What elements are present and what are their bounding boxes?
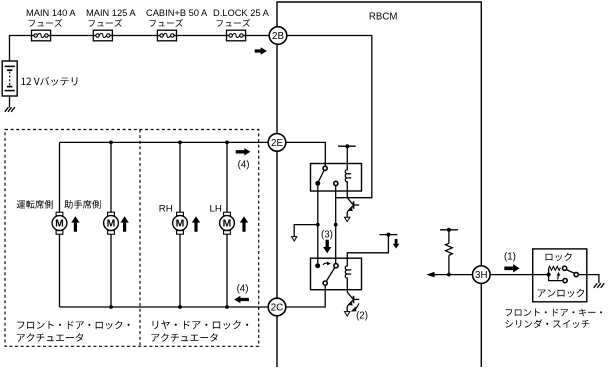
wire ground branch bbox=[294, 225, 318, 237]
motor M1 driver front bbox=[52, 212, 67, 234]
svg-text:RBCM: RBCM bbox=[369, 11, 398, 22]
relay K2 switch bbox=[315, 262, 338, 286]
svg-text:2E: 2E bbox=[271, 138, 283, 149]
flow arrow down at K2 coil feed bbox=[393, 239, 400, 249]
svg-text:M: M bbox=[176, 219, 185, 230]
actuator dashed enclosure bbox=[5, 130, 259, 347]
flow arrow (4) right bbox=[236, 148, 251, 155]
wire motor column x=180 bbox=[178, 141, 182, 309]
wire motor column x=111 bbox=[109, 141, 113, 309]
label (2) bbox=[356, 311, 368, 322]
label rear door lock actuator bbox=[152, 320, 249, 341]
flow arrow (2) at Q2 bbox=[351, 303, 359, 311]
relay K1 coil bbox=[345, 164, 351, 192]
junction node on 3H wire bbox=[447, 273, 451, 277]
lock direction arrow at M1 driver front bbox=[71, 216, 79, 232]
wire top bus (lock feed) bbox=[60, 141, 269, 143]
wire bottom bus (unlock feed) bbox=[60, 306, 269, 308]
label front door lock actuator bbox=[17, 321, 129, 342]
label passenger side bbox=[64, 200, 100, 209]
svg-text:M: M bbox=[107, 219, 116, 230]
wire 2E to relay K1 common bbox=[286, 142, 326, 166]
motor M3 rear RH bbox=[173, 212, 188, 234]
svg-text:M: M bbox=[223, 219, 232, 230]
svg-text:LH: LH bbox=[210, 203, 222, 214]
flow arrow (4) left bbox=[234, 296, 249, 303]
lock direction arrow at M2 passenger front bbox=[120, 216, 128, 232]
label 12 V battery bbox=[21, 77, 77, 86]
fuse F1 MAIN 140A bbox=[32, 30, 51, 41]
power stub to relay K1 coil bbox=[338, 144, 356, 163]
relay K1 switch bbox=[315, 166, 338, 186]
fuse F2 MAIN 125A bbox=[93, 30, 112, 41]
wire 3H to key cylinder switch bbox=[490, 274, 548, 276]
wire K1 NO to K2 common bbox=[334, 186, 338, 264]
label (4) bottom bbox=[237, 283, 249, 294]
svg-text:MAIN 140 A: MAIN 140 A bbox=[26, 8, 76, 18]
label RH bbox=[159, 203, 173, 214]
svg-text:(4): (4) bbox=[238, 160, 250, 171]
label driver side bbox=[17, 200, 53, 209]
key switch contacts bbox=[547, 266, 579, 283]
arrowhead left (to other circuit) bbox=[426, 272, 434, 278]
connector pin 2B bbox=[269, 27, 287, 45]
wire battery to ground bbox=[9, 96, 11, 108]
label front door key cylinder switch line2 bbox=[505, 319, 589, 328]
key cylinder switch box bbox=[533, 249, 587, 302]
svg-text:3H: 3H bbox=[475, 270, 488, 281]
label unlock bbox=[538, 289, 585, 298]
connector pin 3H bbox=[473, 266, 491, 284]
resistor R1 (pull-up) bbox=[446, 230, 453, 275]
ground key switch bbox=[594, 283, 605, 288]
label lock bbox=[546, 253, 572, 261]
label front door key cylinder switch line1 bbox=[506, 308, 602, 316]
label fuse F3 bbox=[146, 8, 208, 27]
svg-text:2B: 2B bbox=[272, 31, 284, 42]
svg-text:RH: RH bbox=[159, 203, 173, 214]
svg-text:M: M bbox=[55, 219, 64, 230]
label (3) bbox=[321, 230, 333, 241]
RBCM module box bbox=[277, 2, 481, 367]
ground battery bbox=[5, 107, 15, 112]
svg-text:(2): (2) bbox=[356, 311, 368, 322]
label (1) bbox=[504, 252, 516, 263]
connector pin 2E bbox=[268, 134, 286, 152]
flow arrow into 2B bbox=[255, 47, 267, 55]
svg-text:(1): (1) bbox=[504, 252, 516, 263]
svg-text:MAIN 125 A: MAIN 125 A bbox=[86, 8, 136, 18]
motor M4 rear LH bbox=[220, 212, 235, 234]
wire 2B to relay NO feed bbox=[287, 36, 372, 198]
svg-text:D.LOCK 25 A: D.LOCK 25 A bbox=[213, 8, 270, 18]
power stub above resistor bbox=[440, 228, 458, 232]
power stub to relay K2 coil bbox=[347, 233, 397, 259]
fuse F4 D.LOCK 25A bbox=[227, 30, 246, 41]
flow arrow (1) right bbox=[504, 264, 519, 272]
wire motor column x=59.5 bbox=[59, 142, 61, 307]
flow arrow (3) down bbox=[323, 240, 331, 253]
lock direction arrow at M4 rear LH bbox=[240, 216, 248, 232]
transistor Q2 bbox=[345, 290, 360, 316]
relay K1 box bbox=[311, 164, 362, 192]
wire 3H to left arrow bbox=[434, 274, 473, 276]
label LH bbox=[210, 203, 222, 214]
battery BT1 12V bbox=[2, 61, 17, 96]
label (4) top bbox=[238, 160, 250, 171]
svg-text:CABIN+B 50 A: CABIN+B 50 A bbox=[146, 8, 208, 18]
relay K2 coil bbox=[345, 258, 351, 290]
ground arrow (to body ground) bbox=[292, 237, 297, 241]
transistor Q1 bbox=[345, 191, 360, 222]
wire battery to fuse F1 bbox=[10, 36, 32, 62]
wire K1 NC to K2 NC (ground net) bbox=[316, 186, 320, 263]
fuse F3 CABIN+B 50A bbox=[157, 30, 176, 41]
relay K2 box bbox=[311, 258, 362, 290]
wire motor column x=227 bbox=[225, 141, 229, 309]
svg-text:(4): (4) bbox=[237, 283, 249, 294]
label fuse F1 bbox=[26, 8, 76, 27]
wire key switch to ground bbox=[578, 275, 599, 283]
connector pin 2C bbox=[268, 298, 286, 316]
svg-text:2C: 2C bbox=[271, 303, 284, 314]
label fuse F4 bbox=[213, 8, 270, 27]
label fuse F2 bbox=[86, 8, 136, 27]
svg-text:(3): (3) bbox=[321, 230, 333, 241]
lock direction arrow at M3 rear RH bbox=[192, 216, 200, 232]
wire fuse chain to 2B bbox=[32, 35, 270, 37]
wire 2C to relay K2 bbox=[286, 285, 325, 307]
motor M2 passenger front bbox=[104, 212, 119, 234]
